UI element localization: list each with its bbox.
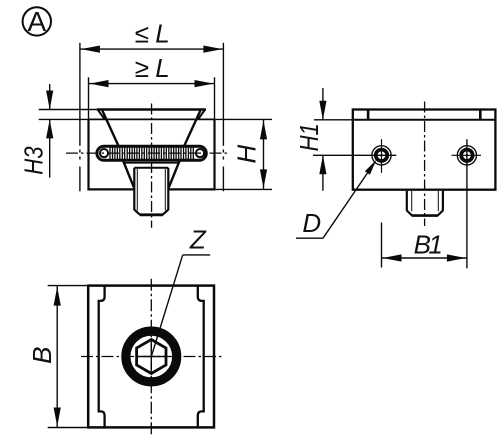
wedge top edge bbox=[97, 108, 206, 110]
dimension H line bbox=[263, 119, 265, 189]
dimension H1 ext top bbox=[314, 119, 353, 121]
stud right edge front bbox=[167, 168, 169, 210]
hole left ring bbox=[376, 150, 388, 162]
svg-text:D: D bbox=[302, 208, 321, 238]
svg-text:H1: H1 bbox=[295, 123, 324, 151]
dimension lesser L line bbox=[80, 48, 224, 50]
side view notch left bbox=[367, 110, 370, 119]
top view ring bbox=[126, 331, 177, 382]
phantom line left bbox=[79, 43, 81, 146]
top view horizontal centerline bbox=[81, 356, 222, 358]
dimension B ext bottom bbox=[48, 427, 88, 429]
dimension B1 ext right bbox=[466, 139, 468, 268]
svg-text:A: A bbox=[27, 6, 46, 37]
stud right chamfer front bbox=[163, 210, 169, 215]
hole right outer circle bbox=[457, 146, 476, 165]
hole right ring bbox=[461, 150, 473, 162]
strip screw right bbox=[196, 149, 204, 157]
dimension H arrow bottom bbox=[260, 169, 267, 188]
stud thread line right front bbox=[164, 169, 166, 211]
dimension H1 arrow top bbox=[319, 101, 326, 120]
front view block left edge bbox=[87, 119, 89, 189]
dimension B1 arrow left bbox=[383, 254, 402, 261]
dimension B arrow bottom bbox=[54, 408, 61, 427]
dimension H ext top bbox=[215, 118, 273, 120]
hole right horizontal centerline bbox=[452, 154, 482, 156]
hole left center dot bbox=[380, 154, 383, 157]
side stud left edge bbox=[406, 191, 408, 211]
side view block outline bbox=[353, 110, 496, 190]
dimension B1 arrow right bbox=[447, 254, 466, 261]
hole left outer circle bbox=[372, 146, 391, 165]
wedge right corner stub bbox=[198, 110, 205, 120]
front vertical centerline bbox=[151, 104, 153, 228]
shoulder line bbox=[124, 162, 179, 164]
dimension greater L ext left bbox=[88, 77, 90, 119]
stud top edge front bbox=[134, 167, 168, 169]
dimension lesser L arrow left bbox=[81, 46, 100, 53]
front view block bottom edge bbox=[87, 188, 134, 190]
serration hatch bbox=[110, 147, 193, 160]
dimension H1 arrow bottom bbox=[319, 155, 326, 174]
svg-text:≥ L: ≥ L bbox=[135, 53, 169, 83]
top view outline bbox=[88, 286, 214, 428]
side stud thread right bbox=[437, 191, 439, 211]
front view block right edge bbox=[213, 119, 215, 189]
wedge right wall upper bbox=[184, 111, 201, 148]
dimension H arrow top bbox=[260, 120, 267, 139]
phantom line right bbox=[222, 43, 224, 146]
wedge left corner stub bbox=[98, 110, 105, 120]
dimension greater L line bbox=[89, 83, 215, 85]
dimension H3 arrow bottom bbox=[46, 119, 53, 138]
side view notch right bbox=[479, 110, 482, 119]
svg-text:Z: Z bbox=[189, 225, 207, 255]
stud left edge front bbox=[133, 168, 135, 210]
dimension H3 ext bottom bbox=[39, 118, 89, 120]
top view inner contour right bbox=[198, 286, 204, 428]
side stud right chamfer bbox=[438, 211, 443, 216]
wedge left wall lower bbox=[122, 158, 134, 187]
dimension B arrow top bbox=[54, 287, 61, 306]
dimension H1 ext bottom bbox=[313, 154, 396, 156]
svg-text:H3: H3 bbox=[20, 146, 49, 175]
label Z leader bbox=[183, 254, 211, 256]
dimension H ext bottom bbox=[216, 188, 272, 190]
svg-text:B: B bbox=[27, 347, 57, 364]
dimension lesser L arrow right bbox=[203, 46, 222, 53]
svg-text:H: H bbox=[231, 144, 261, 163]
dimension B1 ext left bbox=[381, 223, 383, 268]
front view block top edge bbox=[89, 118, 215, 120]
dimension H1 line upper bbox=[322, 88, 324, 120]
dimension H3 line lower bbox=[49, 119, 51, 177]
side vertical centerline bbox=[424, 102, 426, 227]
dimension B1 line bbox=[382, 257, 467, 259]
side view groove line bbox=[353, 119, 496, 121]
dimension B line bbox=[56, 286, 58, 428]
wedge left wall upper bbox=[102, 111, 119, 148]
wedge right wall lower bbox=[169, 158, 181, 187]
side stud thread left bbox=[411, 191, 413, 211]
dimension H1 line lower bbox=[322, 155, 324, 190]
stud thread line left front bbox=[136, 169, 138, 211]
svg-text:≤ L: ≤ L bbox=[135, 18, 169, 48]
hole right center dot bbox=[466, 154, 469, 157]
side stud left chamfer bbox=[407, 211, 412, 216]
label D leader bbox=[296, 237, 323, 239]
svg-text:B1: B1 bbox=[414, 230, 442, 260]
stud bottom edge front bbox=[140, 213, 163, 216]
dimension greater L arrow left bbox=[90, 80, 109, 87]
hole left vertical centerline bbox=[381, 139, 383, 173]
serrated strip body bbox=[97, 146, 206, 160]
stud left chamfer front bbox=[134, 210, 140, 215]
label D arrow bbox=[365, 160, 377, 175]
strip screw left bbox=[100, 149, 108, 157]
top view hex socket bbox=[137, 340, 166, 374]
side stud bottom edge bbox=[412, 214, 439, 217]
dimension H3 arrow top bbox=[46, 91, 53, 110]
front horizontal centerline bbox=[66, 152, 228, 154]
top view center cross bbox=[138, 356, 165, 358]
dimension H3 ext top bbox=[39, 109, 97, 111]
dimension greater L arrow right bbox=[195, 80, 214, 87]
side stud right edge bbox=[442, 191, 444, 211]
dimension H3 line upper bbox=[49, 84, 51, 110]
dimension B ext top bbox=[48, 285, 88, 287]
dimension greater L ext right bbox=[214, 77, 216, 119]
top view vertical centerline bbox=[150, 279, 152, 435]
view label A circle bbox=[23, 7, 51, 35]
top view inner contour left bbox=[99, 286, 105, 428]
